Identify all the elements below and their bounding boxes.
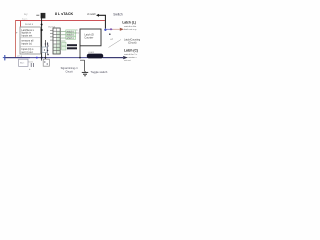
svg-text:of switch: of switch	[87, 13, 97, 16]
wire vertical 2	[44, 40, 46, 58]
wire red bus vertical	[15, 20, 17, 58]
node blue terminal	[104, 29, 106, 31]
ground	[82, 71, 88, 76]
wire diagonal pointer	[109, 40, 122, 48]
svg-text:Counter: Counter	[84, 37, 93, 40]
block green mini cells	[62, 42, 66, 50]
node marks on wire 2	[45, 43, 46, 44]
pin stubs latch stack	[50, 31, 53, 41]
block latch label boxes	[66, 30, 76, 39]
svg-text:latch set in p: latch set in p	[124, 28, 137, 31]
svg-text:(Circuit): (Circuit)	[128, 42, 137, 45]
node junction 1	[41, 24, 43, 26]
svg-text:set out: set out	[124, 59, 131, 62]
node bus left terminal	[4, 55, 6, 60]
block mini box mid	[42, 47, 47, 53]
svg-text:switch-in the: switch-in the	[124, 25, 137, 28]
wire switch horizontal	[96, 14, 99, 17]
svg-text:set (n) out: set (n) out	[21, 51, 33, 54]
wire bottom bus	[5, 57, 124, 59]
block small box A	[19, 59, 28, 66]
svg-text:which t: which t	[66, 37, 74, 40]
wire main vertical	[41, 14, 43, 58]
svg-text:8 L sTACK: 8 L sTACK	[55, 12, 74, 16]
block latch D counter	[80, 29, 101, 46]
svg-text:inputs (s): inputs (s)	[21, 42, 31, 45]
node bold bars	[67, 44, 77, 46]
node arrow to latch L	[120, 28, 124, 31]
component relay oval	[87, 54, 103, 59]
svg-text:(D): (D)	[76, 33, 79, 35]
block latch stack ladder	[53, 28, 60, 54]
wire switch vertical	[104, 15, 106, 28]
node bus junctions	[36, 57, 38, 59]
node bus arrow	[123, 56, 127, 59]
svg-text:Switch: Switch	[113, 13, 123, 17]
svg-text:La set u: La set u	[25, 23, 34, 26]
svg-text:SC t: SC t	[20, 62, 25, 65]
wire vertical 3	[47, 42, 49, 54]
svg-text:Latch (L): Latch (L)	[122, 20, 135, 24]
node mark	[47, 54, 48, 55]
wire red tap	[20, 21, 22, 27]
wire stub below bus	[41, 58, 43, 61]
svg-text:Latch (C): Latch (C)	[124, 49, 138, 53]
svg-text:t-im-g: t-im-g	[17, 55, 22, 58]
svg-text:Toggle switch: Toggle switch	[91, 70, 108, 74]
svg-text:tu p.s: tu p.s	[22, 17, 28, 20]
node junction 2	[41, 29, 43, 31]
note latch row labels	[66, 30, 74, 39]
node top junction block	[41, 13, 46, 19]
node small dot	[109, 33, 111, 35]
svg-text:switch the 1 c: switch the 1 c	[124, 53, 138, 56]
svg-text:Inputs set: Inputs set	[21, 35, 32, 38]
node tick	[36, 14, 39, 16]
wire counter to bus	[79, 46, 81, 58]
block small box B	[43, 59, 49, 66]
wire red bus horizontal	[16, 20, 105, 22]
wire link to latch L	[106, 28, 112, 30]
wire bracket	[80, 59, 85, 61]
node purple junction	[110, 28, 112, 30]
svg-text:Circuit: Circuit	[65, 70, 72, 73]
block latch inputs box	[20, 27, 41, 54]
wire taps to latch labels	[60, 32, 65, 41]
